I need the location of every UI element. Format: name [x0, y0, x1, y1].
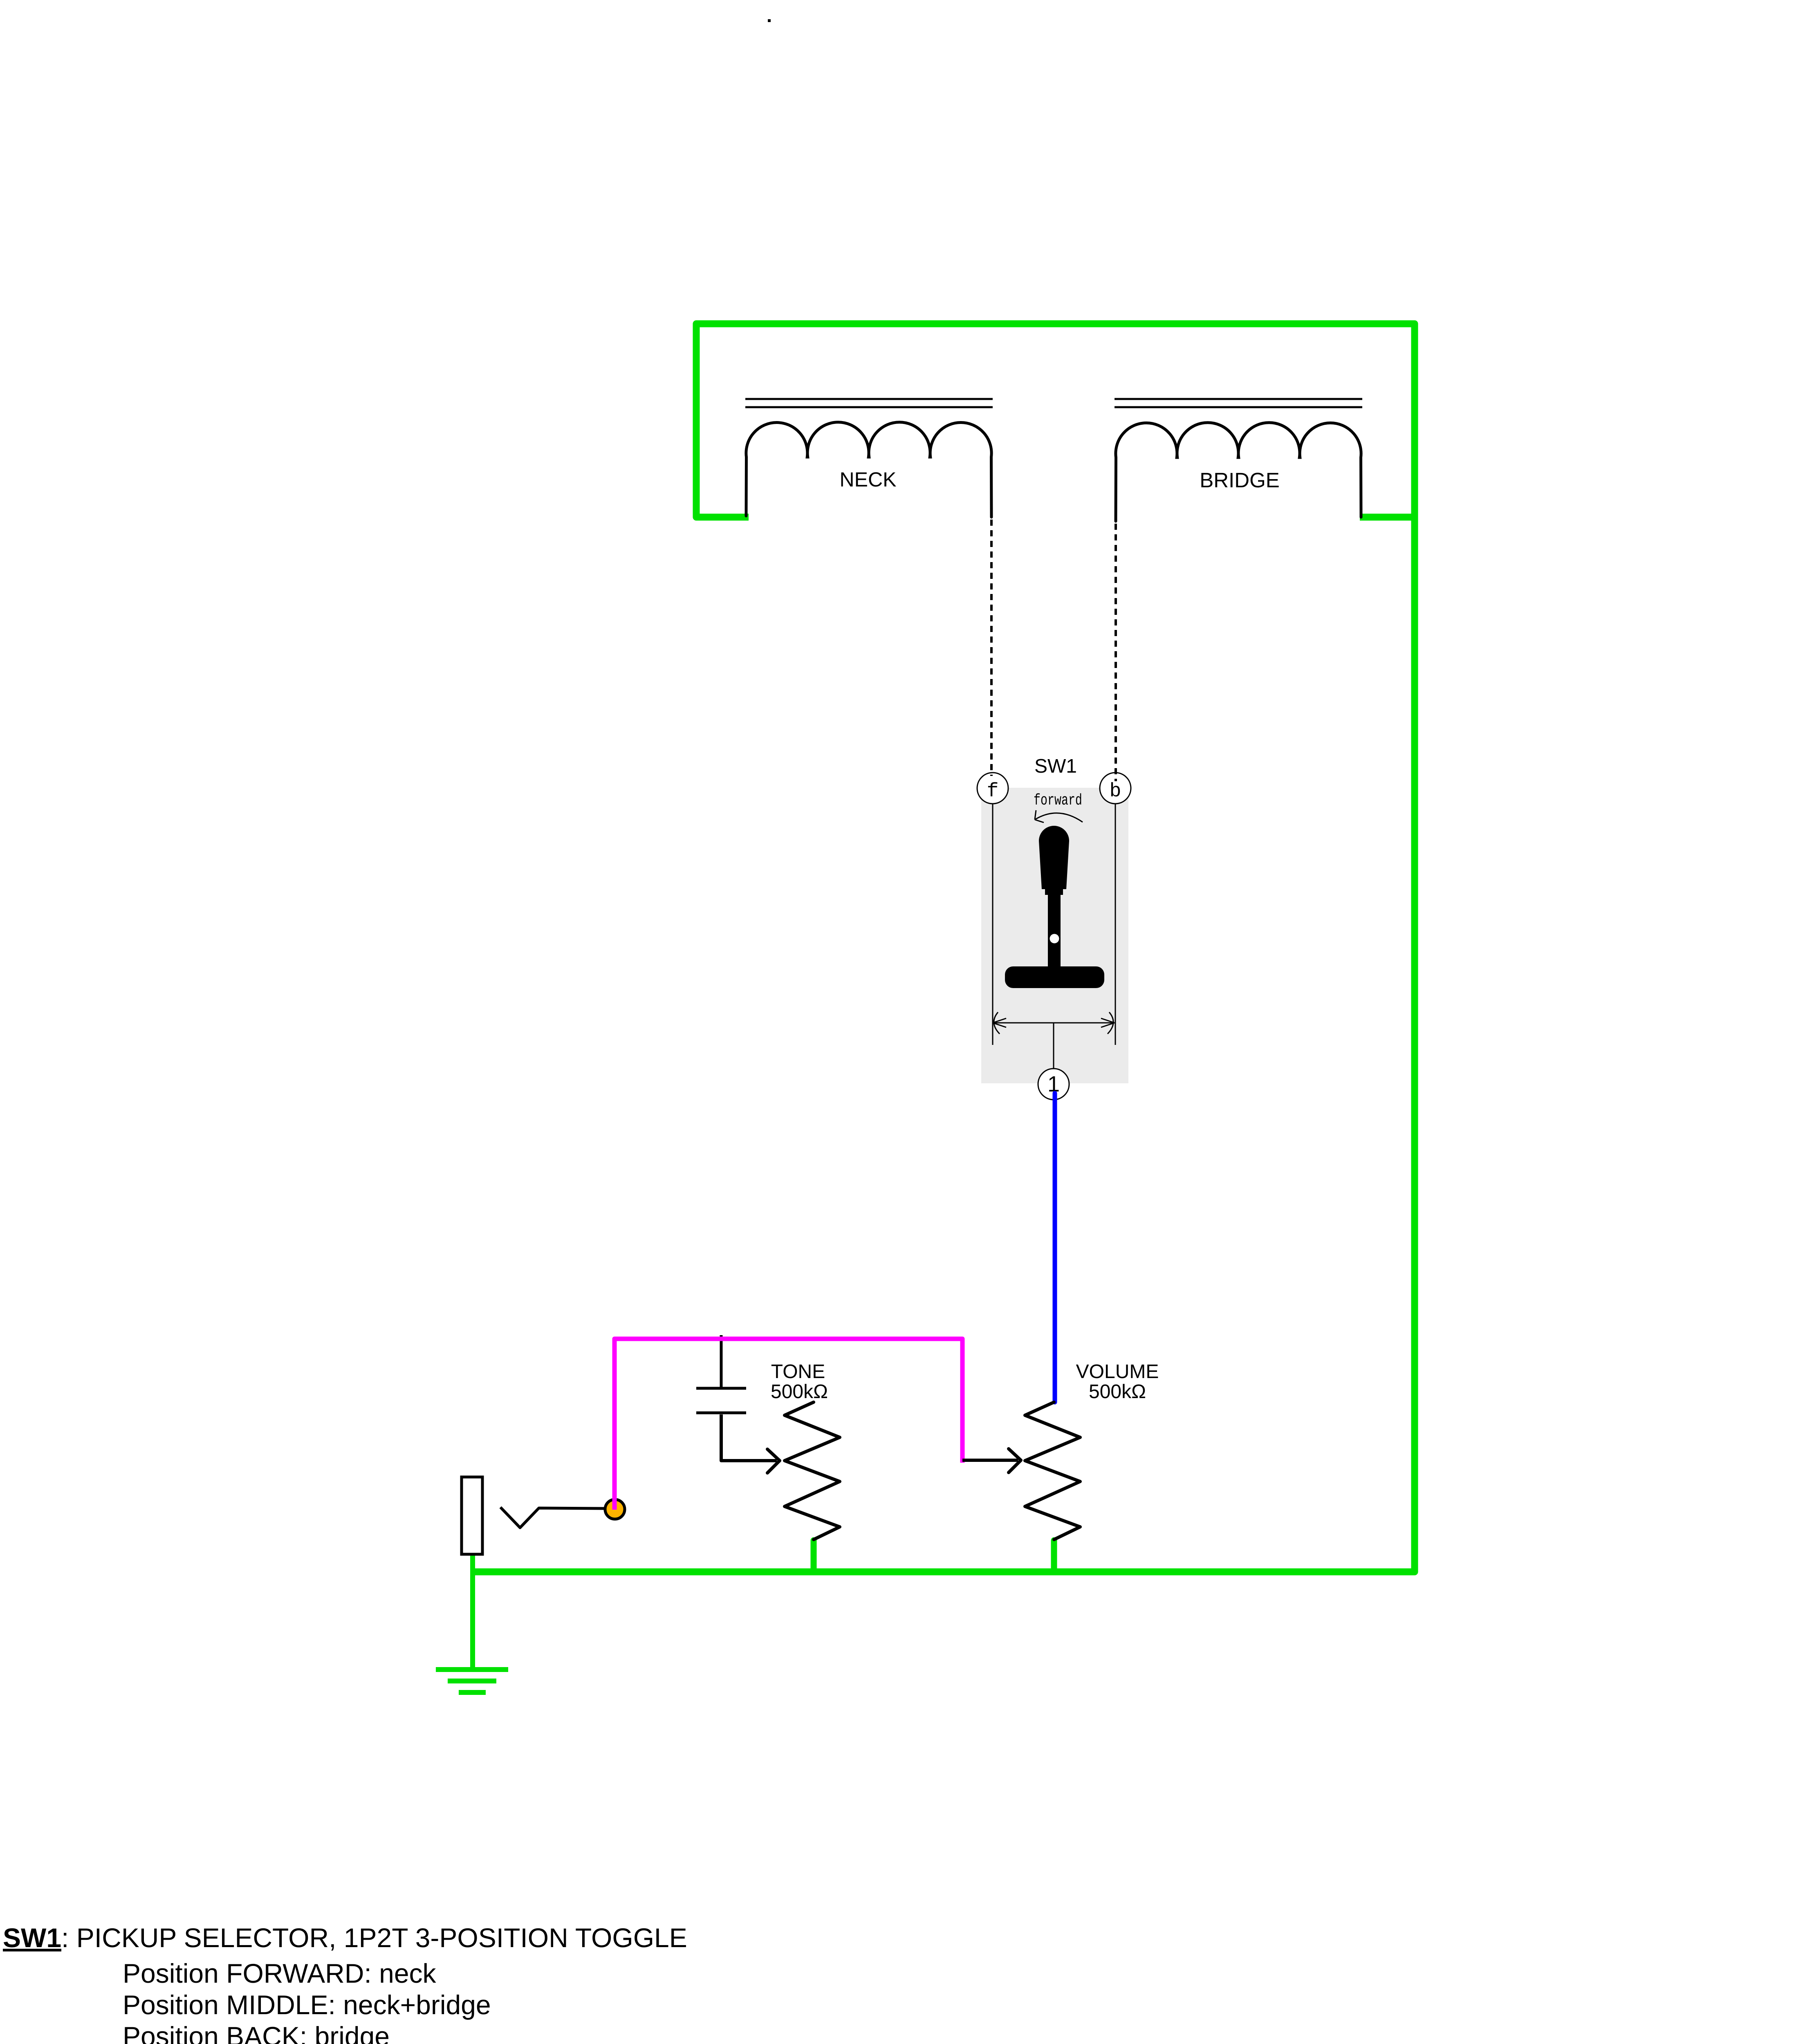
- inductor BRIDGE coil: [1116, 423, 1361, 521]
- pin 1 circle: [1038, 1069, 1069, 1100]
- wire: green bridge ground stub: [1360, 514, 1415, 521]
- svg-text:TONE: TONE: [771, 1361, 825, 1383]
- svg-text:Position FORWARD: neck: Position FORWARD: neck: [123, 1958, 437, 1988]
- pin f circle: [977, 773, 1008, 804]
- switch lever T-bar: [1005, 966, 1104, 988]
- svg-text:SW1: PICKUP SELECTOR, 1P2T 3-P: SW1: PICKUP SELECTOR, 1P2T 3-POSITION TO…: [3, 1923, 687, 1953]
- switch SW1 body (gray): [981, 788, 1128, 1083]
- wire: green volume pot ground stub: [1051, 1540, 1057, 1572]
- pickup NECK core lines: [745, 399, 993, 407]
- ground symbol: [436, 1670, 508, 1692]
- svg-text:forward: forward: [1034, 792, 1082, 809]
- stray dot top center: [768, 19, 771, 22]
- svg-text:SW1: SW1: [1034, 755, 1077, 777]
- wire: green ground loop (neck gnd, top, right side, bottom bus): [470, 324, 1415, 1572]
- svg-text:f: f: [987, 780, 999, 802]
- dimension arc left: [994, 1012, 1000, 1034]
- terminal stub f: [992, 804, 993, 1045]
- capacitor bottom lead + tone wiper arrow: [721, 1414, 777, 1461]
- forward arc arrow: [1035, 813, 1083, 822]
- wire: dashed bridge hot to b: [1115, 524, 1117, 781]
- dimension arc right: [1108, 1012, 1113, 1034]
- wire: magenta volume wiper to tone/jack: [614, 1339, 962, 1510]
- svg-text:NECK: NECK: [840, 468, 897, 491]
- pin b circle: [1100, 773, 1131, 804]
- jack body: [462, 1477, 482, 1554]
- wire: green jack sleeve to ground: [470, 1551, 475, 1670]
- potentiometer VOLUME resistor: [1025, 1402, 1080, 1540]
- svg-text:Position MIDDLE: neck+bridge: Position MIDDLE: neck+bridge: [123, 1990, 491, 2020]
- svg-text:VOLUME: VOLUME: [1076, 1361, 1159, 1383]
- wire: green tone pot ground stub: [811, 1540, 817, 1572]
- inductor NECK coil: [746, 422, 991, 517]
- svg-text:Position BACK: bridge: Position BACK: bridge: [123, 2021, 390, 2044]
- wire: dashed neck hot to f: [990, 520, 993, 776]
- switch lever knob: [1039, 826, 1069, 973]
- jack tip contact: [500, 1507, 605, 1528]
- capacitor C (tone) top lead: [720, 1335, 723, 1387]
- capacitor plates: [696, 1388, 746, 1413]
- wire: blue switch output to volume: [1053, 1093, 1057, 1402]
- svg-text:BRIDGE: BRIDGE: [1200, 468, 1280, 492]
- pickup BRIDGE core lines: [1115, 399, 1362, 407]
- jack tip node (orange): [605, 1499, 625, 1519]
- svg-text:500kΩ: 500kΩ: [1089, 1381, 1146, 1403]
- svg-text:b: b: [1110, 780, 1121, 802]
- svg-text:500kΩ: 500kΩ: [771, 1381, 828, 1403]
- volume wiper arrow from magenta: [962, 1459, 1018, 1462]
- line to pin 1: [1053, 1023, 1054, 1069]
- lever pivot dot: [1050, 934, 1059, 944]
- terminal stub b: [1115, 804, 1116, 1045]
- potentiometer TONE resistor: [785, 1402, 840, 1540]
- dimension line with arrows: [993, 1022, 1114, 1024]
